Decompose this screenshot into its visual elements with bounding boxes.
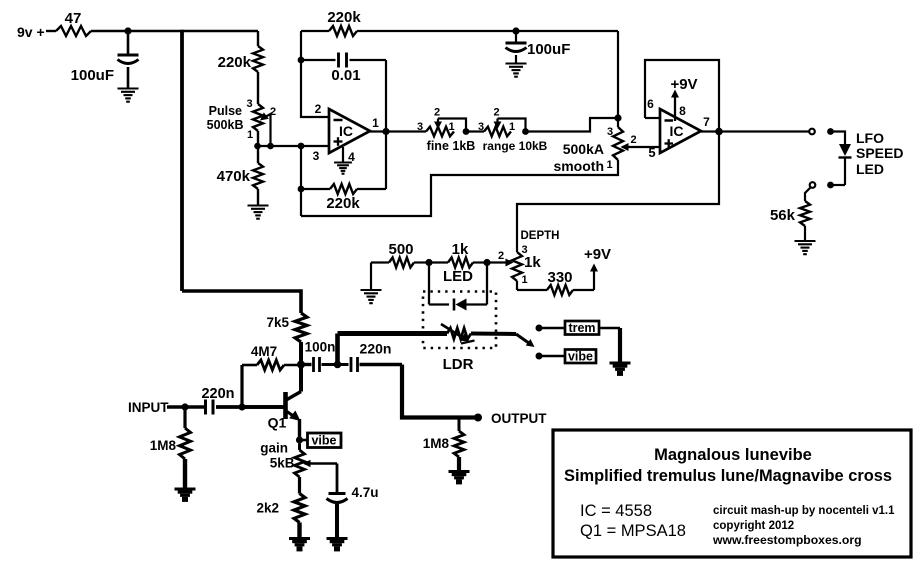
- svg-text:1: 1: [247, 129, 253, 141]
- ground below input 1M8: [175, 488, 196, 491]
- resistor 330: [517, 289, 547, 291]
- svg-text:+9V: +9V: [670, 76, 697, 93]
- svg-text:6: 6: [647, 97, 654, 111]
- svg-text:56k: 56k: [770, 207, 796, 224]
- pin 6 wire op-amp2: [645, 117, 660, 119]
- svg-text:2k2: 2k2: [256, 501, 279, 516]
- wire left vertical to pin 2: [301, 31, 329, 117]
- node 220k bottom left junction: [298, 186, 305, 193]
- svg-text:100n: 100n: [305, 340, 336, 355]
- node range pot output: [522, 128, 529, 135]
- svg-text:circuit mash-up by nocenteli v: circuit mash-up by nocenteli v1.1: [713, 505, 895, 517]
- wiper of Pulse pot: [266, 114, 271, 146]
- resistor 1M8 input: [183, 407, 186, 428]
- svg-text:SPEED: SPEED: [856, 145, 903, 161]
- svg-text:1k: 1k: [524, 254, 541, 271]
- svg-text:1: 1: [372, 116, 379, 130]
- node switch contact trem: [536, 325, 543, 332]
- wire: [46, 30, 56, 32]
- wire trem to ground: [599, 327, 620, 330]
- diode LED of optocoupler: [429, 303, 449, 305]
- node LED drive right: [483, 259, 490, 266]
- capacitor 0.01: [301, 59, 336, 61]
- svg-text:220n: 220n: [201, 386, 234, 402]
- wire: [833, 184, 845, 186]
- svg-text:4.7u: 4.7u: [352, 485, 379, 500]
- wire: [831, 132, 846, 145]
- switch arm trem/vibe: [516, 334, 530, 344]
- svg-text:2: 2: [493, 107, 499, 119]
- svg-text:7k5: 7k5: [266, 315, 289, 330]
- op-amp U1A IC: [329, 109, 370, 153]
- node op-amp2 output: [715, 128, 723, 136]
- svg-text:3: 3: [417, 121, 423, 133]
- node 0.01 left junction: [298, 57, 305, 64]
- svg-text:9v +: 9v +: [17, 24, 45, 40]
- capacitor 100uF filter: [127, 31, 130, 55]
- svg-text:Q1 = MPSA18: Q1 = MPSA18: [580, 522, 686, 540]
- potentiometer range 10kB: [484, 127, 511, 137]
- potentiometer Pulse 500kB: [253, 104, 263, 131]
- svg-text:LDR: LDR: [443, 356, 474, 373]
- wire range to smooth: [526, 118, 619, 132]
- wire pin3 vertical net: [300, 146, 302, 216]
- node LED drive left: [425, 259, 432, 266]
- svg-text:4M7: 4M7: [251, 344, 277, 359]
- resistor 1k LED: [429, 261, 448, 263]
- ground below 500: [370, 263, 372, 291]
- svg-text:LFO: LFO: [856, 130, 884, 146]
- connector open circle LFO out: [809, 129, 815, 135]
- wire main vertical feed: [180, 30, 184, 291]
- svg-text:3: 3: [478, 121, 484, 133]
- svg-text:0.01: 0.01: [331, 67, 360, 84]
- svg-text:DEPTH: DEPTH: [521, 230, 560, 242]
- ground below 56k: [795, 240, 816, 242]
- wire power rail: [91, 30, 258, 33]
- wire LED cathode vertical: [486, 263, 488, 305]
- potentiometer 500kA smooth: [617, 118, 619, 127]
- svg-text:INPUT: INPUT: [128, 400, 169, 415]
- svg-text:1: 1: [509, 121, 515, 133]
- svg-text:smooth: smooth: [553, 158, 604, 174]
- ground below right 100uF: [506, 62, 527, 64]
- svg-text:1M8: 1M8: [150, 438, 177, 453]
- node Pulse bottom junction: [254, 143, 261, 150]
- resistor 220k feedback top: [301, 30, 329, 32]
- resistor 470k: [257, 146, 259, 163]
- ground trem switch: [610, 362, 631, 365]
- svg-text:fine 1kB: fine 1kB: [427, 139, 476, 153]
- svg-text:+9V: +9V: [584, 246, 611, 263]
- svg-text:www.freestompboxes.org: www.freestompboxes.org: [712, 533, 862, 547]
- wire thick to LDR: [338, 331, 448, 336]
- svg-text:range 10kB: range 10kB: [483, 139, 548, 153]
- svg-text:copyright 2012: copyright 2012: [713, 520, 794, 532]
- svg-text:IC = 4558: IC = 4558: [580, 502, 652, 520]
- svg-text:3: 3: [246, 98, 252, 110]
- svg-text:OUTPUT: OUTPUT: [491, 411, 547, 426]
- node OUTPUT terminal: [474, 414, 482, 422]
- wire pin3 net row: [258, 145, 330, 147]
- svg-text:trem: trem: [568, 321, 595, 335]
- resistor 56k: [805, 187, 811, 201]
- svg-text:1: 1: [521, 274, 527, 286]
- node LED bottom: [827, 182, 834, 189]
- svg-text:5: 5: [648, 145, 655, 160]
- node smooth top junction: [614, 114, 621, 121]
- resistor 4M7: [240, 365, 243, 407]
- wire junction up to LDR: [335, 334, 340, 365]
- node emitter vibe junction: [296, 436, 303, 443]
- ground below 2k2: [289, 537, 310, 540]
- wire feed to 7k5: [182, 291, 301, 313]
- wire: [539, 327, 565, 330]
- ground below output 1M8: [449, 470, 470, 473]
- wiper wire into DEPTH pot: [487, 261, 509, 263]
- label box trem: [565, 321, 599, 335]
- node base junction: [238, 403, 245, 410]
- transistor Q1 MPSA18: [299, 365, 303, 392]
- svg-text:vibe: vibe: [568, 350, 593, 364]
- ground below 4.7u: [327, 537, 348, 540]
- svg-text:IC: IC: [339, 123, 353, 139]
- node 100n/220n junction: [334, 361, 342, 369]
- wire: [216, 405, 284, 409]
- title box: [553, 430, 911, 557]
- svg-text:3: 3: [607, 126, 613, 138]
- capacitor 100n: [301, 363, 312, 366]
- wire op-amp2 feedback rectangle: [517, 60, 719, 248]
- svg-text:500kA: 500kA: [563, 141, 604, 157]
- svg-text:5kB: 5kB: [270, 456, 295, 471]
- svg-text:1: 1: [448, 121, 454, 133]
- node op-amp1 output: [382, 128, 389, 135]
- capacitor 100uF LFO supply: [515, 31, 517, 43]
- photoresistor LDR: [447, 328, 471, 339]
- wire to OUTPUT: [402, 365, 478, 418]
- svg-text:330: 330: [547, 269, 572, 286]
- svg-text:100uF: 100uF: [527, 41, 570, 58]
- svg-text:220k: 220k: [326, 195, 360, 212]
- svg-text:7: 7: [703, 115, 710, 129]
- wire: [539, 355, 565, 358]
- wire: [466, 130, 484, 132]
- resistor 7k5: [295, 313, 307, 342]
- svg-text:gain: gain: [260, 441, 288, 456]
- wire LED anode vertical: [428, 263, 430, 305]
- diode LFO SPEED LED: [839, 144, 851, 156]
- svg-text:500kB: 500kB: [207, 118, 244, 132]
- capacitor 220n output: [338, 363, 349, 366]
- wire LDR to switch: [471, 332, 516, 337]
- svg-text:Pulse: Pulse: [209, 104, 242, 118]
- potentiometer fine 1kB: [426, 127, 454, 137]
- svg-text:4: 4: [348, 150, 355, 164]
- node collector junction: [297, 361, 305, 369]
- wire 0.01 right vertical to output: [385, 60, 387, 189]
- svg-text:IC: IC: [670, 123, 684, 139]
- resistor 500: [371, 261, 389, 263]
- resistor 1M8 output: [458, 418, 461, 432]
- svg-text:100uF: 100uF: [71, 67, 114, 84]
- power +9V arrow op-amp2 pin 8: [674, 96, 676, 121]
- node junction power rail / 100uF: [124, 27, 131, 34]
- svg-text:2: 2: [434, 107, 440, 119]
- svg-text:47: 47: [65, 10, 82, 27]
- ground below 470k: [248, 204, 269, 206]
- svg-text:500: 500: [388, 241, 413, 258]
- ground below 100uF: [118, 87, 139, 89]
- svg-text:2: 2: [630, 134, 636, 146]
- svg-text:220k: 220k: [327, 9, 361, 26]
- svg-text:Q1: Q1: [268, 415, 287, 431]
- wiper of gain pot: [305, 462, 338, 465]
- svg-text:3: 3: [313, 149, 320, 163]
- resistor 47: [56, 26, 91, 36]
- label box vibe at gain pot: [308, 433, 342, 448]
- capacitor 220n input: [204, 400, 207, 415]
- wire feedback right vertical: [617, 31, 619, 118]
- svg-text:2: 2: [498, 250, 504, 262]
- label box vibe: [565, 350, 596, 364]
- wire op-amp1 output: [370, 130, 426, 132]
- svg-text:vibe: vibe: [311, 434, 336, 448]
- svg-text:470k: 470k: [217, 168, 251, 185]
- node pin3 junction: [298, 143, 305, 150]
- svg-text:Magnalous lunevibe: Magnalous lunevibe: [654, 446, 812, 464]
- capacitor 4.7u: [329, 492, 346, 495]
- node feedback/100uF junction: [512, 27, 519, 34]
- svg-text:Simplified tremulus lune/Magna: Simplified tremulus lune/Magnavibe cross: [564, 467, 892, 485]
- power +9V arrow LED supply: [593, 269, 595, 290]
- resistor 220k from rail: [257, 31, 259, 46]
- resistor 220k feedback bottom: [301, 188, 330, 190]
- wiper of smooth pot to pin 5: [622, 146, 660, 148]
- pin 4 ground op-amp1: [342, 147, 344, 162]
- svg-text:1: 1: [606, 159, 612, 171]
- node fine pot output: [463, 128, 470, 135]
- connector open circle LED return: [810, 182, 816, 188]
- svg-text:2: 2: [315, 102, 322, 116]
- svg-text:LED: LED: [443, 268, 473, 285]
- svg-text:220n: 220n: [360, 341, 392, 357]
- node switch contact vibe: [536, 353, 543, 360]
- op-amp U1B IC: [660, 109, 701, 153]
- node LED top: [827, 128, 834, 135]
- svg-text:8: 8: [679, 104, 686, 118]
- wire smooth pot return path: [301, 160, 618, 216]
- svg-text:LED: LED: [856, 161, 884, 177]
- wire LFO output: [701, 130, 809, 132]
- svg-text:220k: 220k: [218, 54, 252, 71]
- dotted box optocoupler outline: [423, 292, 496, 349]
- svg-text:1k: 1k: [452, 241, 469, 258]
- node Pulse wiper junction: [267, 143, 274, 150]
- resistor 2k2: [298, 477, 301, 494]
- svg-text:1M8: 1M8: [423, 436, 450, 451]
